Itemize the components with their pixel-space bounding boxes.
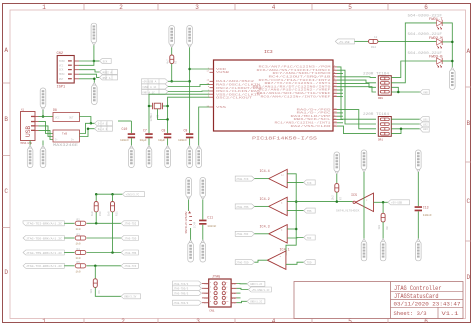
svg-text:5: 5 (210, 292, 211, 294)
wire DR8 out4 (391, 91, 398, 93)
svg-text:6: 6 (424, 4, 428, 11)
svg-text:2k2: 2k2 (331, 195, 335, 200)
svg-text:JTAG-TCK: JTAG-TCK (124, 265, 137, 268)
wire CN2 pin4 (79, 74, 99, 77)
svg-text:1k0: 1k0 (90, 211, 94, 216)
capacitor C11 (199, 200, 216, 241)
net label out IC4.4 (304, 180, 316, 185)
svg-text:SCK: SCK (59, 69, 64, 72)
svg-text:LB1: LB1 (423, 119, 428, 122)
wire DR8 out2 to LED1 row (391, 23, 436, 83)
capacitor C13 (415, 172, 432, 239)
svg-text:10µF: 10µF (140, 139, 147, 142)
LED FWD2 (408, 32, 443, 48)
svg-text:D-: D- (55, 139, 59, 142)
wire IC3 osc2 to crystal leg (168, 97, 210, 133)
svg-text:MOSI A: MOSI A (103, 71, 113, 74)
IC3 left pin numbers (207, 66, 210, 107)
svg-text:D+: D+ (71, 139, 75, 142)
wire IC3 osc1 to crystal leg (149, 94, 210, 133)
svg-text:TCK: TCK (307, 182, 312, 185)
LED FWD1 (408, 13, 443, 29)
wire label to R12 (355, 40, 369, 42)
svg-text:1k0: 1k0 (377, 224, 381, 229)
supply flag above R1 (169, 26, 175, 48)
junction row3 (111, 251, 114, 254)
svg-text:MINI-USB: MINI-USB (21, 142, 33, 145)
wire CN1 right 5 (237, 301, 248, 302)
wire out IC4.1 (286, 262, 304, 264)
gnd flag below vss (196, 146, 202, 168)
supply flag above IC5 (361, 150, 367, 172)
junction D8 out (90, 122, 93, 125)
gnd flag below USB 2 (40, 146, 46, 168)
net label CN1 left 1 (173, 281, 202, 286)
svg-text:2: 2 (226, 282, 227, 284)
junction CN2 pin1 (93, 60, 96, 63)
svg-text:+5V-USB: +5V-USB (391, 202, 402, 205)
net label +5V-USB IC5 (388, 200, 410, 205)
wire in IC4.1 (255, 260, 268, 262)
net label JTAG-TCK-BRK row4 (23, 263, 64, 268)
junction DR8 out34 (397, 91, 400, 94)
wire CN1 right 1 (237, 283, 248, 285)
junction bus IC4.3 (295, 228, 298, 231)
net label pennant DR1 b (420, 122, 429, 127)
resistor R4 (75, 248, 86, 260)
wire row1 left (64, 222, 74, 224)
svg-text:SN74LVC125APW: SN74LVC125APW (185, 211, 188, 233)
svg-text:RST: RST (59, 78, 64, 81)
svg-text:+5V-USB/1.2C: +5V-USB/1.2C (252, 289, 271, 292)
resistor array DR8 220R TC164 (363, 73, 391, 101)
wire TxB out 1 (80, 123, 91, 133)
junction row4 (94, 265, 97, 268)
inverter IC5 (336, 193, 374, 212)
svg-text:TxB: TxB (62, 133, 67, 136)
svg-text:R12: R12 (371, 46, 376, 49)
svg-text:D: D (466, 274, 470, 281)
wire VDD to IC3 (190, 68, 210, 70)
IC3 right pin stubs (333, 67, 337, 126)
svg-text:CN1: CN1 (209, 310, 215, 313)
junction rail R11 (111, 193, 114, 196)
gnd flag IC4P (188, 240, 194, 262)
svg-text:MAX3246E: MAX3246E (53, 143, 78, 147)
svg-text:JTAG-TDO/3: JTAG-TDO/3 (173, 288, 189, 291)
svg-text:IC4.2: IC4.2 (260, 198, 270, 202)
junction VDD top (188, 68, 191, 71)
capacitor C7 (140, 129, 153, 147)
inverter IC4.4 (260, 169, 288, 187)
wire block G row1 (168, 80, 190, 82)
net label block USB row2 (95, 126, 113, 131)
net label CN1 right 3 (247, 299, 265, 304)
wire USB gnd (39, 130, 54, 139)
net label out IC4.1 (304, 260, 316, 265)
junction row1 (95, 222, 98, 225)
net label CN1 right 2 (248, 287, 271, 292)
svg-text:JTAG-TDI: JTAG-TDI (236, 233, 249, 236)
net label in IC4.4 (235, 176, 254, 181)
wire LED cathodes common (442, 23, 452, 68)
junction TxB out (87, 127, 90, 130)
net label block rows CN2 right (99, 69, 117, 74)
svg-text:R10: R10 (99, 211, 102, 216)
net label in IC4.2 (235, 204, 254, 209)
gnd flag below CN2 labels (92, 83, 98, 105)
net label in IC4.1 (235, 260, 254, 265)
svg-text:VUSB A 1C: VUSB A 1C (142, 86, 156, 89)
wire in IC4.2 (255, 205, 269, 207)
gnd flag below USB 1 (27, 146, 33, 168)
net label out IC4.2 (304, 208, 316, 213)
svg-text:100nF: 100nF (120, 139, 129, 142)
net label in IC4.3 (235, 231, 254, 236)
svg-text:3: 3 (210, 287, 211, 289)
wire from +5V flag to CN2 pin1 (94, 45, 100, 61)
svg-text:D8: D8 (53, 108, 57, 112)
wire block G row2 to IC3 (168, 85, 210, 87)
svg-text:1k0: 1k0 (106, 211, 110, 216)
title block sheet (394, 310, 427, 317)
resistor R1 (166, 55, 178, 64)
svg-text:4: 4 (226, 287, 227, 289)
svg-text:JTAG-TDI: JTAG-TDI (124, 223, 137, 226)
net label CN1 right 1 (247, 281, 265, 286)
svg-text:MOSI: MOSI (59, 73, 65, 76)
svg-text:C9: C9 (184, 129, 188, 133)
svg-text:JTAG-TDO: JTAG-TDO (236, 262, 249, 265)
wire CN2 pin1 to label (79, 60, 99, 62)
net label JTAG-TDO right (121, 236, 138, 241)
svg-text:JTAG-TCK: JTAG-TCK (236, 178, 249, 181)
net label out IC4.3 (304, 235, 316, 240)
svg-text:IC4.3: IC4.3 (260, 225, 270, 229)
title block box (294, 282, 463, 319)
svg-text:V1.1: V1.1 (442, 310, 460, 317)
gnd flag R8 (380, 239, 386, 261)
wire DR1 out4 (391, 129, 401, 134)
wire row3 right (87, 252, 122, 254)
wire CN1 right 2 (237, 288, 249, 289)
gnd flag below C9 (187, 146, 193, 168)
connector CN2 (ISP1) (57, 52, 75, 90)
svg-text:FWD3-B: FWD3-B (429, 55, 443, 59)
supply flag +5V above CN2 (91, 23, 97, 45)
gnd flag IC5 (361, 239, 367, 261)
svg-text:R8: R8 (386, 226, 389, 230)
svg-text:IC4.4: IC4.4 (260, 170, 270, 174)
svg-text:1k0: 1k0 (76, 242, 81, 246)
svg-text:JTAG-TDO-BRK/A/1.2C: JTAG-TDO-BRK/A/1.2C (26, 236, 63, 240)
svg-text:3: 3 (195, 4, 199, 11)
power symbol IC4P SN74LVC125APW (185, 200, 196, 241)
net label CN1 left 2 (173, 286, 202, 291)
net label block rows CN2 right 2 (99, 75, 117, 80)
svg-text:1: 1 (42, 318, 46, 325)
svg-text:03/11/2020 23:43:47: 03/11/2020 23:43:47 (394, 301, 462, 308)
net label rail (122, 192, 144, 197)
supply flag +5V above USB (40, 88, 46, 110)
wire IC4.3 enable (287, 228, 296, 230)
CN1 right pin names (232, 282, 237, 304)
wire CN1 right 4 (237, 297, 241, 299)
svg-text:4: 4 (272, 4, 276, 11)
svg-text:IC5: IC5 (351, 194, 357, 198)
gnd flag below C10 (129, 146, 135, 168)
resistor R12 (369, 35, 378, 49)
svg-text:GND/1.2C: GND/1.2C (250, 301, 263, 304)
svg-text:JTAGStatusCard: JTAGStatusCard (394, 293, 439, 300)
svg-text:JTAG-TDI/3: JTAG-TDI/3 (173, 302, 189, 305)
net label block G row3 (142, 89, 169, 94)
wire out IC4.2 (287, 210, 303, 212)
supply flag above C13 (416, 150, 422, 172)
svg-text:1k0: 1k0 (76, 269, 81, 273)
svg-text:4: 4 (272, 318, 276, 325)
wires IC3 to DR1 array (337, 93, 376, 133)
junction LED3 cathode (451, 60, 454, 63)
wires IC3 to DR8 array (337, 67, 376, 124)
svg-text:MISO: MISO (59, 60, 65, 63)
wire IC5 out (374, 201, 388, 203)
svg-text:C8: C8 (162, 129, 166, 133)
svg-text:10: 10 (226, 301, 228, 303)
svg-text:R7: R7 (340, 196, 343, 200)
wire flag to R1 (171, 48, 173, 56)
wire IC5 supply (363, 172, 365, 239)
svg-text:JTAG-TMS: JTAG-TMS (236, 206, 249, 209)
supply flag above C11 (200, 178, 206, 200)
svg-text:1: 1 (42, 4, 46, 11)
svg-text:1k0: 1k0 (76, 256, 81, 260)
capacitor C8 (158, 129, 171, 147)
junction LED2 cathode (451, 41, 454, 44)
svg-text:100nF: 100nF (207, 225, 216, 228)
title block date (394, 301, 462, 308)
wire CN2 pin5 (79, 78, 94, 80)
svg-text:JTAG-TMS-BRK/A/1.2C: JTAG-TMS-BRK/A/1.2C (26, 251, 63, 255)
svg-text:+5V-USB A: +5V-USB A (142, 81, 156, 84)
svg-text:DR8: DR8 (378, 97, 383, 100)
CN1 left pin stubs (202, 284, 209, 303)
svg-text:ISP1: ISP1 (57, 86, 66, 90)
net label block G row2 (142, 84, 169, 89)
svg-text:100nF: 100nF (178, 139, 187, 142)
wire out IC4.3 (287, 237, 303, 240)
resistor R10 (90, 194, 102, 223)
wire in IC4.3 (255, 233, 269, 235)
connector CN1 JTAG (209, 276, 231, 313)
svg-text:JTAG-TCK/3: JTAG-TCK/3 (173, 283, 189, 286)
svg-text:+5V-USB: +5V-USB (339, 41, 350, 44)
svg-text:TDO: TDO (307, 262, 312, 265)
wire row2 right (87, 237, 122, 239)
svg-text:RA2/VSS/CLKR: RA2/VSS/CLKR (291, 124, 332, 128)
net label JTAG-TDO-BRK row2 (23, 236, 64, 241)
wire row2 left (64, 237, 74, 239)
wire USB D+ (39, 126, 54, 137)
svg-text:JTAG-TMS/3: JTAG-TMS/3 (173, 293, 189, 296)
svg-text:C7: C7 (143, 129, 147, 133)
junction bus rail (295, 200, 298, 203)
CN2 pin stubs (74, 61, 79, 79)
net label gnd R6 (121, 294, 141, 299)
wire VDD flag down (189, 48, 191, 134)
svg-text:RST A: RST A (103, 77, 111, 80)
title block text JTAGStatusCard (394, 293, 439, 300)
svg-text:C: C (466, 198, 470, 205)
net label block USB row1 (95, 121, 113, 126)
svg-text:+5V: +5V (232, 287, 237, 290)
svg-text:12MHz: 12MHz (150, 113, 153, 122)
CN1 left pin names (204, 282, 209, 304)
wire row4 left (64, 265, 74, 267)
enable bus vertical IC4 (286, 174, 296, 256)
svg-text:D: D (4, 269, 8, 276)
crystal X2 (148, 103, 169, 122)
svg-text:A: A (4, 47, 8, 54)
capacitor C10 (118, 121, 135, 146)
supply flag IC4P vcc (186, 178, 192, 200)
resistor R2 (75, 219, 86, 231)
svg-text:C13: C13 (423, 205, 429, 209)
svg-text:PIC18F14K50-I/SS: PIC18F14K50-I/SS (252, 136, 317, 142)
junction USB vcc (42, 115, 45, 118)
svg-text:+3V3/3.7C: +3V3/3.7C (126, 194, 140, 197)
net label block G row1 (142, 79, 169, 84)
svg-text:1k: 1k (374, 35, 378, 39)
IC U IC3 PIC18F14K50 (214, 49, 334, 142)
gnd flag C11 (200, 240, 206, 262)
net label JTAG-TCK right (121, 263, 138, 268)
svg-text:FWD2-M: FWD2-M (429, 36, 443, 40)
net label JTAG-TDI right (121, 221, 138, 226)
inverter IC4.2 (260, 197, 288, 215)
svg-text:VCC: VCC (55, 117, 60, 120)
rail +3V3 pullups (96, 193, 122, 195)
svg-text:D+ A 1: D+ A 1 (98, 128, 108, 131)
wire USB shield to gnd flag (29, 141, 31, 147)
wire out IC4.4 (287, 181, 303, 183)
wire USB gnd to gnd flag (42, 141, 44, 147)
svg-text:1: 1 (210, 282, 211, 284)
IC3 right pin numbers (334, 64, 337, 126)
svg-text:JTAG-TMS: JTAG-TMS (124, 252, 137, 255)
svg-text:JTAG-TCK-BRK/A/1.2C: JTAG-TCK-BRK/A/1.2C (26, 264, 63, 268)
svg-text:B: B (4, 116, 8, 123)
wire DR1 out2 (391, 123, 420, 125)
junction CN2 gnd (93, 78, 96, 81)
svg-text:R11: R11 (115, 211, 118, 216)
wire R12 to LED2 (378, 40, 436, 42)
gnd flag below C7 (146, 146, 152, 168)
svg-text:C10: C10 (122, 127, 128, 131)
gnd flag LED common (450, 67, 456, 89)
svg-text:SCK: SCK (103, 60, 108, 63)
svg-text:R6: R6 (98, 290, 101, 294)
IC3 left pin stubs (210, 69, 214, 107)
svg-text:1k0: 1k0 (89, 288, 93, 293)
svg-text:3: 3 (196, 318, 200, 325)
svg-text:FWD1-T: FWD1-T (429, 17, 443, 21)
wire CN2 pin2 (79, 61, 94, 65)
resistor R6 (89, 266, 121, 297)
svg-text:CN2: CN2 (57, 52, 63, 56)
wire R1 to net row (171, 64, 173, 82)
filter TxB MAX3246E (53, 130, 80, 147)
wire +5V flag to USB vcc (42, 110, 44, 117)
svg-text:GND/1.2C: GND/1.2C (250, 283, 263, 286)
resistor R11 (106, 194, 118, 252)
svg-text:JTAG Controller: JTAG Controller (394, 285, 442, 292)
supply flag above VDD rail (187, 26, 193, 48)
USB pin stubs (35, 117, 39, 131)
svg-text:TMS: TMS (307, 210, 312, 213)
svg-text:JTAG-TDO: JTAG-TDO (124, 237, 137, 240)
connector X1 USB (21, 109, 36, 146)
resistor R3 (75, 233, 86, 245)
svg-text:RC0/AN4/C12IN+/INT0/VREF: RC0/AN4/C12IN+/INT0/VREF (261, 94, 332, 98)
wire USB D- (39, 122, 54, 134)
wire DR8 out3 (391, 87, 420, 92)
wire DR1 out3 (391, 128, 420, 130)
svg-text:B: B (466, 120, 470, 127)
ferrite D8 (53, 108, 80, 122)
svg-text:VUSB: VUSB (216, 71, 230, 74)
wire row3 left (64, 252, 74, 254)
svg-text:OSC2/CLKOUT: OSC2/CLKOUT (216, 96, 253, 100)
svg-text:VCC: VCC (59, 64, 64, 67)
svg-text:2: 2 (119, 4, 123, 11)
junction R1 bottom (170, 80, 173, 83)
svg-text:X2: X2 (157, 114, 160, 118)
svg-text:8: 8 (226, 296, 227, 298)
svg-text:5: 5 (348, 4, 352, 11)
net label pennant DR1 a (420, 117, 429, 122)
wire rail IC4.2 to IC5 (287, 201, 353, 203)
resistor R5 (75, 261, 86, 273)
junction IC5 out (382, 201, 385, 204)
svg-text:GND: GND (423, 91, 428, 94)
supply flag above R7 (334, 152, 340, 174)
net label JTAG-TDI-BRK row1 (23, 221, 64, 226)
junction R7 rail (336, 200, 339, 203)
svg-text:GND/3.3V: GND/3.3V (124, 296, 137, 299)
wire IC5 out to R8 (382, 202, 384, 213)
wire DR1 out1 (391, 118, 420, 120)
net label JTAG-TMS-BRK row3 (23, 250, 64, 255)
gnd flag below C8 (165, 146, 171, 168)
svg-text:1k0: 1k0 (76, 227, 81, 231)
net label JTAG-TMS right (121, 250, 138, 255)
inverter IC4.1 (267, 249, 289, 270)
svg-text:IC3: IC3 (264, 49, 273, 55)
resistor array DR1 220R TC164 (363, 113, 391, 141)
title block text JTAG Controller (394, 285, 442, 292)
svg-text:9: 9 (210, 301, 211, 303)
svg-text:TDI: TDI (204, 287, 209, 290)
wire block G row3 to IC3 (168, 90, 210, 93)
svg-text:D- A 1: D- A 1 (98, 123, 108, 126)
inverter IC4.3 (260, 225, 288, 243)
wire D8 out (80, 117, 95, 124)
svg-text:JTAG-TDI-BRK/A/1.2C: JTAG-TDI-BRK/A/1.2C (26, 222, 63, 226)
svg-text:2: 2 (121, 318, 125, 325)
svg-text:C: C (4, 188, 8, 195)
resistor R7 (331, 174, 343, 202)
